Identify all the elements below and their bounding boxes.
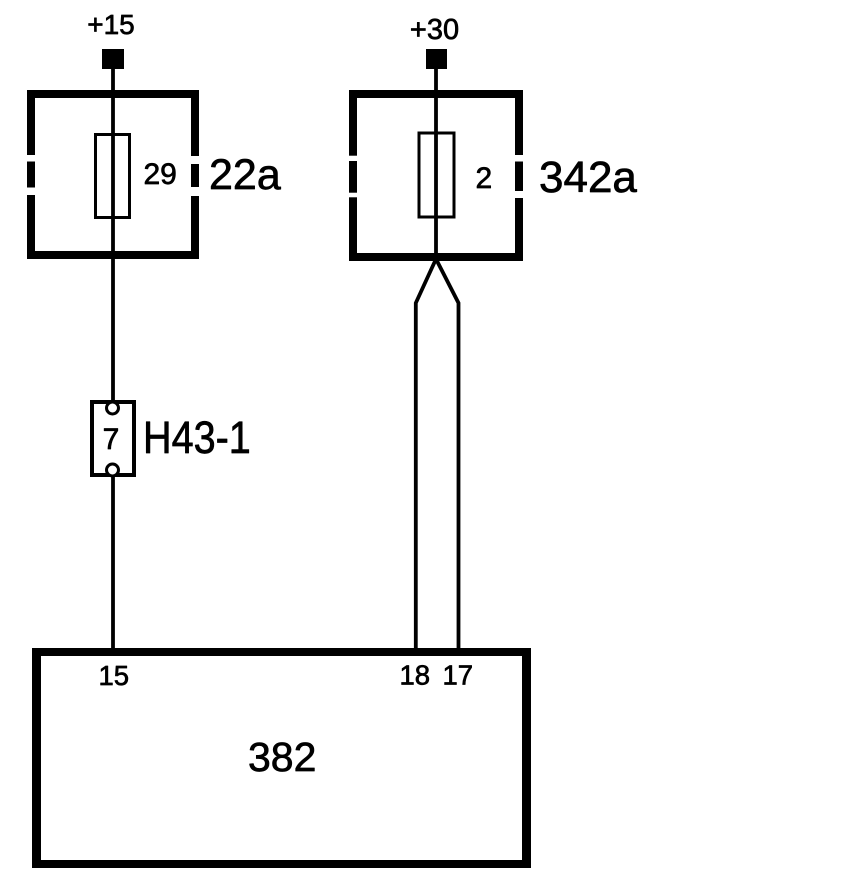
- svg-text:382: 382: [248, 734, 316, 780]
- svg-text:29: 29: [144, 158, 177, 191]
- svg-text:18: 18: [400, 660, 431, 691]
- svg-text:17: 17: [443, 660, 474, 691]
- svg-text:15: 15: [99, 660, 130, 691]
- svg-text:342a: 342a: [539, 153, 637, 202]
- svg-text:H43-1: H43-1: [143, 413, 251, 463]
- svg-text:+30: +30: [410, 14, 459, 46]
- svg-text:22a: 22a: [209, 151, 281, 199]
- svg-text:7: 7: [103, 423, 120, 456]
- svg-text:+15: +15: [87, 9, 135, 40]
- svg-text:2: 2: [476, 162, 493, 195]
